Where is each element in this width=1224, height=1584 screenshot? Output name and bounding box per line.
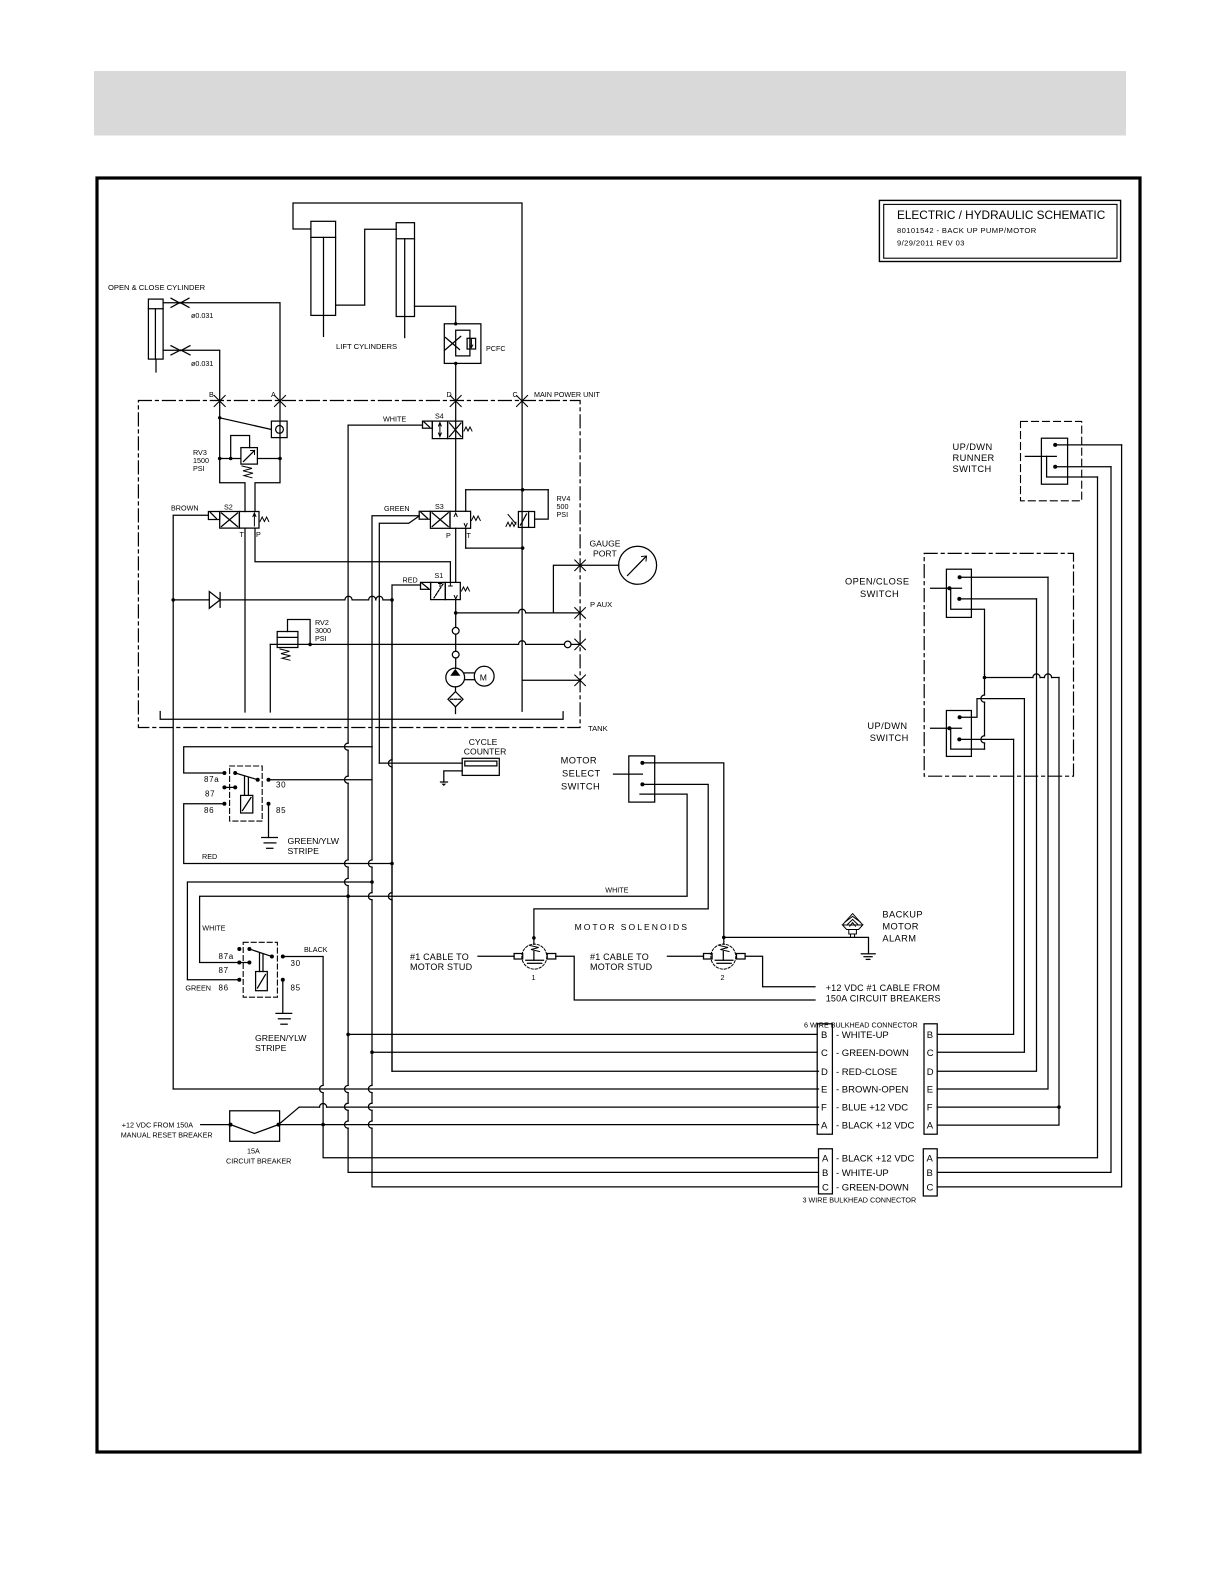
- svg-text:OPEN & CLOSE CYLINDER: OPEN & CLOSE CYLINDER: [108, 283, 206, 292]
- svg-text:86: 86: [219, 984, 229, 993]
- wire lift cylinder 2 to PCFC: [415, 306, 456, 324]
- up/dwn runner switch dashed box: [1021, 421, 1082, 500]
- wire S1 to pump: [455, 600, 457, 669]
- svg-text:STRIPE: STRIPE: [255, 1043, 287, 1053]
- svg-text:WHITE: WHITE: [383, 415, 406, 424]
- 3-wire connector left pin letters: [822, 1153, 829, 1193]
- wire alarm feed: [724, 937, 869, 953]
- 15A circuit breaker: [229, 1111, 281, 1142]
- svg-text:P: P: [446, 531, 451, 540]
- svg-text:CIRCUIT BREAKER: CIRCUIT BREAKER: [226, 1157, 291, 1166]
- wire RED to S1: [392, 585, 421, 1071]
- svg-text:UP/DWN: UP/DWN: [867, 721, 907, 731]
- svg-text:SWITCH: SWITCH: [953, 464, 992, 474]
- relief valve RV4: [466, 488, 549, 550]
- wire top manifold: [293, 203, 522, 401]
- wire GREEN to S3 solenoid: [372, 516, 419, 747]
- wire BROWN down left side: [172, 600, 174, 1089]
- wire second green to cycle counter: [379, 762, 462, 764]
- svg-text:A: A: [822, 1153, 829, 1164]
- up/dwn runner switch body: [1025, 438, 1067, 484]
- svg-text:B: B: [821, 1030, 827, 1041]
- svg-text:BLACK: BLACK: [304, 945, 328, 954]
- svg-text:1: 1: [532, 973, 536, 982]
- wire GREEN to relay1 87a: [184, 747, 372, 773]
- motor solenoid 2: [704, 944, 746, 969]
- svg-text:T: T: [240, 530, 245, 539]
- 3-wire bulkhead connector left shell: [819, 1149, 833, 1194]
- svg-text:S4: S4: [435, 412, 444, 421]
- wire GREEN to relay2 86: [187, 882, 372, 980]
- svg-text:GREEN/YLW: GREEN/YLW: [288, 836, 340, 846]
- svg-text:STRIPE: STRIPE: [288, 846, 320, 856]
- wire up/dwn top dot: [960, 699, 1025, 718]
- wire WHITE vertical with crossover hops: [344, 425, 348, 1034]
- wire 6-pin B right to up/dwn switch bottom: [937, 739, 1013, 1034]
- backup alarm horn: [843, 914, 863, 937]
- svg-text:B: B: [209, 390, 214, 399]
- wire S2 T to tank: [244, 528, 246, 712]
- svg-text:- BROWN-OPEN: - BROWN-OPEN: [836, 1085, 908, 1096]
- label OPEN/CLOSE SWITCH: [845, 577, 909, 600]
- wire 6-pin F right to switch commons: [937, 1106, 1059, 1108]
- wire relay1 30 output to GREEN down line: [269, 779, 373, 781]
- label CYCLE COUNTER: [464, 737, 507, 757]
- wire breaker output to A row BLACK +12: [279, 1124, 819, 1126]
- cross mark tank test port: [575, 639, 586, 650]
- label UP/DWN SWITCH: [867, 721, 908, 743]
- svg-text:A: A: [821, 1121, 828, 1132]
- cross mark tank return port: [575, 675, 586, 686]
- check ball 1 on pump line: [452, 627, 459, 634]
- svg-text:A: A: [927, 1153, 934, 1164]
- label UP/DWN RUNNER SWITCH: [953, 442, 995, 474]
- relay 1 terminal labels: [204, 775, 286, 815]
- junction dot WHITE at 6-wire B row: [346, 1033, 350, 1037]
- wire BLACK from relay2 30: [283, 957, 819, 1158]
- hydraulic pump: [446, 668, 474, 687]
- electric motor M: [474, 666, 494, 686]
- pilot operated check valve: [271, 421, 287, 438]
- wire 6-pin D right to open/close switch bottom: [937, 599, 1036, 1071]
- junction dot switch commons: [983, 676, 987, 680]
- junction dot GREEN at 6-wire C row: [370, 1050, 374, 1054]
- svg-text:RED: RED: [403, 576, 418, 585]
- svg-text:- BLACK +12 VDC: - BLACK +12 VDC: [836, 1121, 915, 1132]
- svg-text:BACKUP: BACKUP: [882, 910, 923, 920]
- svg-text:CYCLE: CYCLE: [469, 737, 498, 747]
- svg-text:B: B: [927, 1168, 933, 1179]
- pilot line to check valve: [220, 418, 272, 430]
- svg-text:D: D: [927, 1067, 934, 1078]
- wire PCFC to node D: [455, 363, 457, 401]
- svg-text:ø0.031: ø0.031: [191, 311, 213, 320]
- wire green return from S3 solenoid: [379, 516, 419, 763]
- svg-text:C: C: [927, 1182, 934, 1193]
- wire runner switch top dot: [1055, 444, 1121, 446]
- junction dot BLACK at breaker feed: [321, 1123, 325, 1127]
- wire runner switch bottom dot: [1055, 466, 1111, 468]
- svg-text:30: 30: [291, 959, 301, 968]
- cross mark gauge port: [575, 560, 586, 571]
- wire WHITE to relay2 87 and motor select switch: [200, 794, 687, 962]
- node A cross mark: [275, 396, 286, 407]
- wire select switch bottom to solenoid 1: [534, 784, 708, 944]
- wire breaker switched output to F row BLUE +12: [279, 1103, 819, 1124]
- svg-text:P AUX: P AUX: [590, 600, 612, 609]
- wire P line S3 to S1: [455, 528, 457, 582]
- wire WHITE vertical lower with hops: [344, 1034, 818, 1172]
- wire WHITE to S4: [348, 424, 422, 426]
- svg-text:87a: 87a: [219, 952, 234, 961]
- svg-text:87: 87: [205, 790, 215, 799]
- node D cross mark: [450, 396, 461, 407]
- wire up/dwn bottom dot: [959, 738, 1013, 740]
- svg-text:T: T: [467, 531, 472, 540]
- relay 1 ground 85: [262, 804, 278, 849]
- svg-text:WHITE: WHITE: [202, 924, 225, 933]
- wire 6-pin C right to up/dwn switch top: [937, 699, 1024, 1053]
- svg-text:- BLUE +12 VDC: - BLUE +12 VDC: [836, 1103, 908, 1114]
- svg-text:OPEN/CLOSE: OPEN/CLOSE: [845, 577, 909, 587]
- svg-text:MOTOR SOLENOIDS: MOTOR SOLENOIDS: [575, 922, 689, 932]
- svg-text:RED: RED: [202, 852, 217, 861]
- svg-text:86: 86: [204, 806, 214, 815]
- wire RV2 outlet line to P AUX quick disconnect: [270, 641, 580, 648]
- wire GREEN vertical with hops: [368, 747, 372, 1052]
- wire solenoid 2 to +12 feed: [745, 956, 815, 987]
- wire commons riser down with hops: [981, 678, 985, 750]
- pressure gauge: [580, 546, 657, 584]
- svg-text:MOTOR STUD: MOTOR STUD: [590, 962, 653, 972]
- relay 1 contact arm and terminals: [222, 771, 270, 806]
- svg-text:ø0.031: ø0.031: [191, 359, 213, 368]
- svg-text:E: E: [821, 1085, 827, 1096]
- 6-wire connector left pin letters: [821, 1030, 828, 1132]
- wire gauge branch: [553, 565, 580, 613]
- relief valve RV3: [218, 436, 282, 478]
- svg-text:S2: S2: [224, 503, 233, 512]
- svg-text:M: M: [480, 673, 487, 683]
- suction filter: [448, 687, 463, 714]
- svg-text:MANUAL RESET BREAKER: MANUAL RESET BREAKER: [121, 1131, 213, 1140]
- up/dwn switch body: [931, 711, 972, 757]
- svg-text:C: C: [513, 390, 518, 399]
- main border frame: [97, 178, 1140, 1452]
- svg-text:SWITCH: SWITCH: [561, 782, 600, 792]
- wire 3-pin A right to runner switch common: [937, 477, 1097, 1158]
- wire BROWN to E row: [173, 1088, 818, 1090]
- label +12 VDC #1 CABLE FROM 150A CIRCUIT BREAKERS: [826, 983, 941, 1004]
- wire node B down to T jog: [220, 401, 245, 512]
- svg-text:PORT: PORT: [593, 549, 617, 559]
- svg-text:87: 87: [219, 966, 229, 975]
- main power unit dashed boundary: [138, 401, 580, 728]
- junction dot P AUX takeoff: [454, 611, 458, 615]
- svg-text:87a: 87a: [204, 775, 219, 784]
- junction dot RED at relay1 86 wire: [390, 862, 394, 866]
- svg-text:- RED-CLOSE: - RED-CLOSE: [836, 1067, 897, 1078]
- svg-text:+12 VDC #1 CABLE FROM: +12 VDC #1 CABLE FROM: [826, 983, 941, 993]
- label BACKUP MOTOR ALARM: [882, 910, 923, 944]
- wire between lift cylinders: [336, 229, 397, 305]
- svg-text:ALARM: ALARM: [882, 934, 916, 944]
- svg-text:P: P: [256, 530, 261, 539]
- svg-text:- WHITE-UP: - WHITE-UP: [836, 1168, 889, 1179]
- cycle counter box: [462, 758, 499, 775]
- 6-wire bulkhead connector right shell: [924, 1024, 937, 1134]
- svg-text:150A CIRCUIT BREAKERS: 150A CIRCUIT BREAKERS: [826, 994, 941, 1004]
- label 15A CIRCUIT BREAKER: [226, 1147, 291, 1166]
- svg-text:- GREEN-DOWN: - GREEN-DOWN: [836, 1182, 909, 1193]
- svg-text:B: B: [822, 1168, 828, 1179]
- motor solenoid 1: [514, 944, 556, 969]
- svg-text:MAIN POWER UNIT: MAIN POWER UNIT: [534, 390, 600, 399]
- cross mark P AUX port: [575, 608, 586, 619]
- svg-text:MOTOR: MOTOR: [882, 922, 918, 932]
- svg-text:A: A: [271, 390, 276, 399]
- relay 2 terminal labels: [219, 952, 301, 993]
- wire relay1 86 to RED: [184, 804, 392, 864]
- svg-text:MOTOR: MOTOR: [561, 756, 597, 766]
- title block outer box: [879, 200, 1120, 261]
- relay 2 box: [243, 942, 277, 997]
- svg-text:C: C: [927, 1048, 934, 1059]
- wire 6-pin A right joins F riser: [937, 678, 1059, 1126]
- svg-text:PSI: PSI: [315, 634, 327, 643]
- svg-text:- WHITE-UP: - WHITE-UP: [836, 1030, 889, 1041]
- junction dot GREEN to relay 2 coil: [370, 880, 374, 884]
- svg-text:S1: S1: [435, 571, 444, 580]
- node C cross mark: [517, 396, 528, 407]
- relief valve RV2: [277, 620, 312, 661]
- svg-text:LIFT CYLINDERS: LIFT CYLINDERS: [336, 342, 397, 351]
- relay 1 box: [230, 766, 263, 821]
- svg-text:C: C: [821, 1048, 828, 1059]
- wire cylinder port B to node B: [163, 350, 220, 401]
- svg-text:#1 CABLE TO: #1 CABLE TO: [590, 952, 649, 962]
- wire solenoid 1 to +12 feed: [556, 956, 815, 1000]
- svg-text:COUNTER: COUNTER: [464, 747, 507, 757]
- label RV4 500 PSI: [557, 494, 571, 519]
- wire P AUX line: [456, 609, 580, 613]
- svg-text:85: 85: [291, 984, 301, 993]
- wire motor stud cable 1 left: [478, 955, 514, 957]
- wire 3-pin C right to runner switch top: [937, 445, 1121, 1187]
- relay 2 contact arm and terminals: [237, 947, 284, 982]
- wire commons to +12 riser with hops: [985, 674, 1060, 678]
- svg-text:6 WIRE BULKHEAD CONNECTOR: 6 WIRE BULKHEAD CONNECTOR: [804, 1021, 918, 1030]
- svg-text:SWITCH: SWITCH: [860, 589, 899, 599]
- wire WHITE to 6-pin B row: [348, 1033, 817, 1035]
- junction dot solenoid 1 coil: [532, 936, 536, 940]
- junction dot WHITE at relay2/switch feed: [346, 894, 350, 898]
- svg-text:GREEN: GREEN: [185, 984, 211, 993]
- svg-text:ELECTRIC / HYDRAULIC SCHEMATIC: ELECTRIC / HYDRAULIC SCHEMATIC: [897, 208, 1106, 222]
- svg-text:GREEN/YLW: GREEN/YLW: [255, 1033, 307, 1043]
- label GAUGE PORT: [590, 539, 621, 559]
- svg-text:80101542 - BACK UP PUMP/MOTOR: 80101542 - BACK UP PUMP/MOTOR: [897, 226, 1037, 235]
- relay 1 coil: [241, 777, 253, 814]
- svg-text:B: B: [927, 1030, 933, 1041]
- svg-text:F: F: [821, 1103, 827, 1114]
- label RV3 1500 PSI: [193, 448, 209, 473]
- svg-text:D: D: [821, 1067, 828, 1078]
- svg-text:- BLACK +12 VDC: - BLACK +12 VDC: [836, 1153, 915, 1164]
- label GREEN/YLW STRIPE relay2: [255, 1033, 307, 1053]
- cycle counter ground: [441, 771, 463, 786]
- wire open/close bottom dot: [959, 598, 1036, 600]
- svg-text:S3: S3: [435, 502, 444, 511]
- svg-text:TANK: TANK: [588, 724, 608, 733]
- 6-wire connector right pin letters: [927, 1030, 934, 1132]
- wire open/close common link down: [949, 588, 984, 674]
- svg-text:RUNNER: RUNNER: [953, 453, 995, 463]
- orifice symbol 1: [171, 298, 189, 307]
- label #1 CABLE TO MOTOR STUD (solenoid 2): [590, 952, 653, 972]
- 3-wire connector right pin letters: [927, 1153, 934, 1193]
- solenoid valve S2: [208, 512, 268, 529]
- wire +12 into breaker: [201, 1124, 230, 1126]
- solenoid valve S1: [421, 582, 470, 599]
- 3-wire bulkhead connector right shell: [923, 1149, 937, 1196]
- lift cylinder 1: [311, 221, 336, 336]
- svg-text:F: F: [927, 1103, 933, 1114]
- 3-wire connector wire name labels: [836, 1153, 915, 1193]
- svg-text:PSI: PSI: [193, 464, 205, 473]
- wire motor stud cable 2 left: [667, 955, 703, 957]
- svg-text:15A: 15A: [247, 1147, 260, 1156]
- wire select switch top to solenoid 2: [642, 763, 723, 944]
- wire tank return branch from C line: [522, 679, 580, 681]
- diode from BROWN line to RED line: [171, 592, 392, 609]
- motor select switch box: [614, 756, 655, 802]
- svg-text:C: C: [822, 1182, 829, 1193]
- svg-text:3 WIRE BULKHEAD CONNECTOR: 3 WIRE BULKHEAD CONNECTOR: [803, 1196, 917, 1205]
- svg-text:SWITCH: SWITCH: [870, 733, 909, 743]
- wire 3-pin B right to runner switch bottom: [937, 467, 1111, 1173]
- junction dot solenoid 2 coil: [722, 936, 726, 940]
- svg-text:+12 VDC FROM 150A: +12 VDC FROM 150A: [122, 1121, 194, 1130]
- wire node C down to tank: [521, 401, 523, 711]
- wire cylinder port A to node A: [163, 303, 280, 401]
- svg-text:E: E: [927, 1085, 933, 1096]
- svg-text:GREEN: GREEN: [384, 504, 410, 513]
- gray header banner: [94, 71, 1126, 136]
- svg-text:PSI: PSI: [557, 510, 569, 519]
- wire RED vertical with hops: [388, 600, 818, 1071]
- lower switches dashed enclosure: [924, 553, 1073, 776]
- svg-text:MOTOR STUD: MOTOR STUD: [410, 962, 473, 972]
- svg-text:2: 2: [721, 973, 725, 982]
- svg-text:A: A: [927, 1121, 934, 1132]
- relay 2 coil: [256, 953, 268, 991]
- wire runner switch common link: [1047, 456, 1098, 477]
- label #1 CABLE TO MOTOR STUD (solenoid 1): [410, 952, 473, 972]
- solenoid valve S3: [419, 511, 480, 528]
- junction dot F/A riser: [1057, 1105, 1061, 1109]
- svg-text:#1 CABLE TO: #1 CABLE TO: [410, 952, 469, 962]
- lift cylinder 2: [396, 223, 414, 338]
- label MOTOR SELECT SWITCH: [561, 756, 601, 792]
- label +12 VDC FROM 150A MANUAL RESET BREAKER: [121, 1121, 213, 1140]
- relay 2 ground 85: [276, 980, 292, 1024]
- wire node D through S4 to S3: [455, 401, 457, 511]
- junction dot RED at diode line: [390, 598, 394, 602]
- wire up/dwn common link: [949, 728, 984, 749]
- svg-text:UP/DWN: UP/DWN: [953, 442, 993, 452]
- wire GREEN vertical lower with hops: [368, 1052, 818, 1187]
- title block inner box: [884, 204, 1117, 258]
- wire RV2 return drop to tank: [269, 644, 271, 712]
- svg-text:PCFC: PCFC: [486, 344, 506, 353]
- node B cross mark: [214, 396, 225, 407]
- svg-text:9/29/2011 REV 03: 9/29/2011 REV 03: [897, 239, 965, 248]
- svg-text:BROWN: BROWN: [171, 504, 199, 513]
- tank outline: [160, 712, 563, 720]
- svg-text:85: 85: [276, 806, 286, 815]
- wire S2 P to S1 pilot port: [255, 528, 450, 582]
- 6-wire connector wire name labels: [836, 1030, 915, 1132]
- backup alarm ground: [861, 954, 875, 960]
- label GREEN/YLW STRIPE relay1: [288, 836, 340, 856]
- svg-text:WHITE: WHITE: [605, 886, 628, 895]
- svg-text:GAUGE: GAUGE: [590, 539, 621, 549]
- PCFC flow control valve: [444, 322, 481, 365]
- svg-text:30: 30: [276, 781, 286, 790]
- svg-text:D: D: [447, 390, 452, 399]
- wire node A down to P jog: [255, 401, 280, 512]
- orifice symbol 2: [171, 346, 190, 355]
- 6-wire bulkhead connector left shell: [817, 1024, 832, 1134]
- check ball 2 on pump line: [452, 651, 459, 658]
- open/close cylinder body: [148, 299, 163, 372]
- solenoid valve S4: [423, 421, 473, 439]
- svg-text:- GREEN-DOWN: - GREEN-DOWN: [836, 1048, 909, 1059]
- wire BROWN to S2: [173, 515, 208, 600]
- svg-text:SELECT: SELECT: [562, 769, 601, 779]
- wire open/close top dot: [960, 576, 1048, 578]
- wire 6-pin E right to open/close switch top: [937, 577, 1048, 1089]
- wire GREEN to 6-pin C row: [372, 1051, 817, 1053]
- label RV2 3000 PSI: [315, 618, 331, 643]
- open/close switch body: [931, 569, 972, 617]
